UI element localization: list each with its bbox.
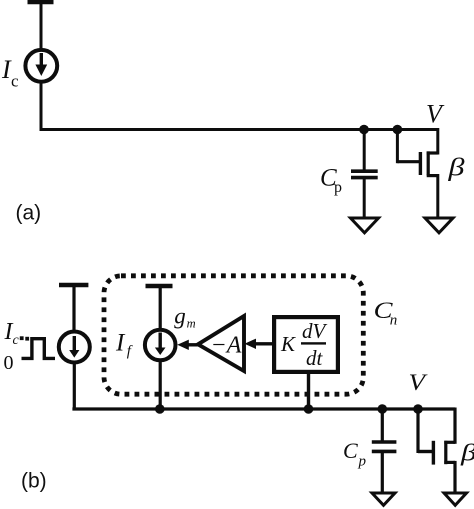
- svg-text:β: β: [460, 441, 474, 467]
- capacitor Cp (b): [372, 409, 397, 494]
- dotted leader: [20, 336, 29, 340]
- label Cp (a): [320, 164, 342, 196]
- node dot: [155, 404, 165, 414]
- wire: [159, 360, 162, 411]
- current source Ic (a): [25, 50, 57, 82]
- node dot: [378, 404, 388, 414]
- node dot: [413, 404, 423, 414]
- node dot: [359, 125, 369, 135]
- wire: [40, 128, 438, 131]
- svg-text:(a): (a): [16, 202, 42, 225]
- label Ic: [1, 55, 19, 91]
- power rail bar (b left): [59, 283, 88, 287]
- svg-text:dV: dV: [302, 319, 328, 343]
- ground (a, under mosfet): [425, 218, 453, 233]
- svg-text:g: g: [174, 303, 186, 328]
- svg-text:p: p: [334, 179, 342, 196]
- bus wire: [72, 407, 455, 410]
- differentiator box K dV/dt: [274, 317, 338, 372]
- power rail bar (b inner): [146, 284, 173, 288]
- label gm: [174, 303, 195, 330]
- label Cn: [374, 298, 398, 329]
- ground (b, under Cp): [372, 493, 395, 505]
- wire: [307, 372, 310, 411]
- label Cp (b): [343, 438, 367, 470]
- power rail bar (a): [28, 0, 54, 4]
- mosfet beta (a): [397, 128, 437, 218]
- svg-text:c: c: [13, 333, 20, 348]
- op-amp -A: [198, 316, 244, 371]
- arrow amp to If: [177, 340, 199, 350]
- current source Ic (b): [59, 332, 90, 363]
- svg-text:0: 0: [4, 352, 14, 374]
- wire: [73, 362, 76, 411]
- current source If gm: [145, 330, 176, 361]
- label Ic (b): [4, 319, 20, 348]
- svg-text:n: n: [390, 313, 398, 329]
- mosfet beta (b): [418, 408, 455, 494]
- capacitor Cp (a): [351, 130, 378, 219]
- svg-text:(b): (b): [21, 469, 47, 492]
- label If: [115, 330, 133, 360]
- wire: [40, 84, 43, 132]
- pulse waveform: [22, 339, 56, 359]
- svg-text:c: c: [11, 72, 19, 91]
- svg-text:−A: −A: [211, 332, 242, 358]
- wire: [72, 285, 75, 332]
- wire: [159, 286, 162, 330]
- ground (a, under Cp): [351, 218, 379, 233]
- dashed box Cn: [104, 276, 363, 394]
- wire: [40, 2, 43, 51]
- svg-text:β: β: [447, 155, 465, 182]
- arrow box to amp: [245, 339, 274, 349]
- svg-text:p: p: [358, 454, 367, 470]
- svg-text:C: C: [343, 438, 358, 463]
- svg-text:m: m: [187, 316, 196, 330]
- ground (b, under mosfet): [444, 493, 467, 505]
- svg-text:dt: dt: [306, 346, 324, 370]
- node dot: [304, 404, 314, 414]
- node dot: [393, 125, 403, 135]
- svg-text:K: K: [280, 332, 296, 356]
- label K dV/dt: [280, 319, 328, 370]
